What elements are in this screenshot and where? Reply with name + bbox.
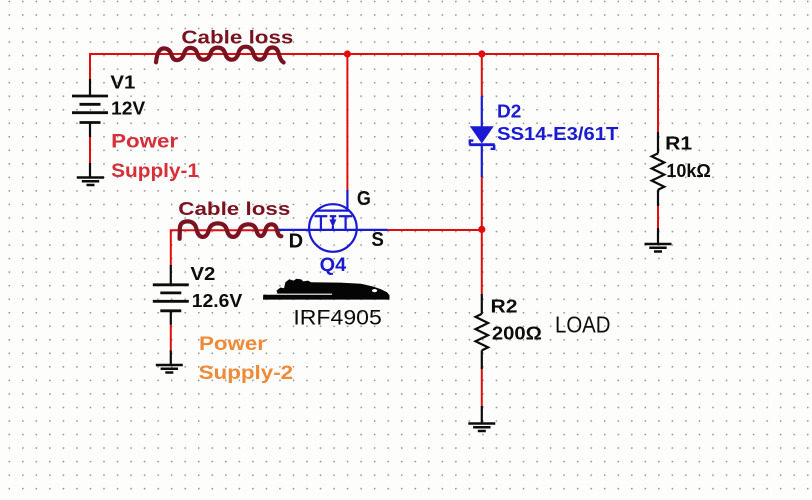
svg-text:Power: Power xyxy=(111,132,179,153)
svg-text:R1: R1 xyxy=(665,134,692,154)
svg-text:12.6V: 12.6V xyxy=(192,291,242,311)
svg-text:Supply-1: Supply-1 xyxy=(111,161,199,182)
svg-text:D: D xyxy=(289,231,304,253)
svg-text:LOAD: LOAD xyxy=(555,312,611,338)
svg-text:IRF4905: IRF4905 xyxy=(293,307,381,330)
svg-text:Cable loss: Cable loss xyxy=(181,28,293,48)
svg-text:SS14-E3/61T: SS14-E3/61T xyxy=(497,124,618,144)
svg-text:Power: Power xyxy=(199,334,267,355)
svg-text:10kΩ: 10kΩ xyxy=(666,161,710,181)
svg-text:Cable loss: Cable loss xyxy=(178,199,290,219)
svg-text:Supply-2: Supply-2 xyxy=(199,363,294,384)
svg-text:V2: V2 xyxy=(190,264,215,284)
svg-text:S: S xyxy=(371,229,384,251)
svg-text:R2: R2 xyxy=(491,296,518,316)
svg-text:Q4: Q4 xyxy=(320,255,347,276)
svg-text:D2: D2 xyxy=(497,102,521,122)
svg-text:200Ω: 200Ω xyxy=(492,323,542,343)
svg-text:V1: V1 xyxy=(110,72,135,92)
svg-text:G: G xyxy=(357,188,371,210)
svg-text:12V: 12V xyxy=(111,98,145,118)
